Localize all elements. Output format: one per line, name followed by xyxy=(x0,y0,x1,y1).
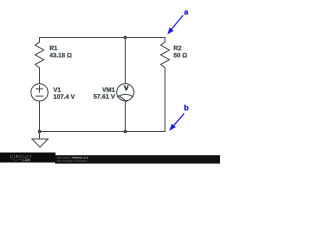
ground symbol triangle xyxy=(32,139,48,147)
label VM1 xyxy=(102,88,115,92)
VM1 meter needle xyxy=(119,96,127,102)
V1 plus sign xyxy=(36,86,42,92)
node label a xyxy=(184,10,188,14)
wire: R1 top lead xyxy=(39,38,41,43)
VM1 meter scale arc xyxy=(117,94,132,97)
wire: R1 to V1 xyxy=(39,68,41,84)
label R1 xyxy=(50,46,57,50)
voltmeter VM1 circle xyxy=(117,84,134,101)
wire: bottom net xyxy=(40,131,166,133)
value V1 107.4 V xyxy=(54,94,75,98)
wire: R2 top lead xyxy=(164,38,166,43)
resistor R2 xyxy=(161,42,170,68)
arrow to node b: line xyxy=(174,114,185,126)
wire: top node to VM1 xyxy=(124,38,126,84)
wire: V1 to bottom node xyxy=(39,101,41,132)
node label b xyxy=(184,105,188,111)
wire: VM1 to bottom node xyxy=(124,101,126,132)
junction node bottom (VM1/bottom net) xyxy=(124,130,127,133)
wire: top net from R1 to R2 xyxy=(40,37,166,39)
label R2 xyxy=(174,46,181,50)
footer main strip xyxy=(55,155,220,163)
arrow to node b: head xyxy=(169,124,176,131)
wire: ground stub xyxy=(39,132,41,140)
footer logo wave xyxy=(12,159,22,160)
arrow to node a: head xyxy=(167,27,173,34)
arrow to node a: line xyxy=(172,15,184,29)
voltage source V1 circle xyxy=(31,84,48,101)
footer url xyxy=(57,160,86,162)
resistor R1 xyxy=(35,42,44,68)
footer logo CIRCUIT xyxy=(10,155,32,158)
junction node top (VM1/top net) xyxy=(124,36,127,39)
footer author xyxy=(57,157,71,159)
footer logo box xyxy=(0,153,56,163)
value VM1 57.61 V xyxy=(94,94,115,98)
junction node ground xyxy=(38,130,41,133)
label V1 xyxy=(53,88,60,92)
value R2 50 ohm xyxy=(174,53,187,57)
footer logo LAB xyxy=(23,159,30,161)
V1 minus sign xyxy=(36,95,42,97)
footer circuit title xyxy=(72,157,88,159)
VM1 letter V xyxy=(124,86,128,91)
value R1 43.18 ohm xyxy=(50,53,72,57)
wire: R2 to bottom xyxy=(164,68,166,132)
